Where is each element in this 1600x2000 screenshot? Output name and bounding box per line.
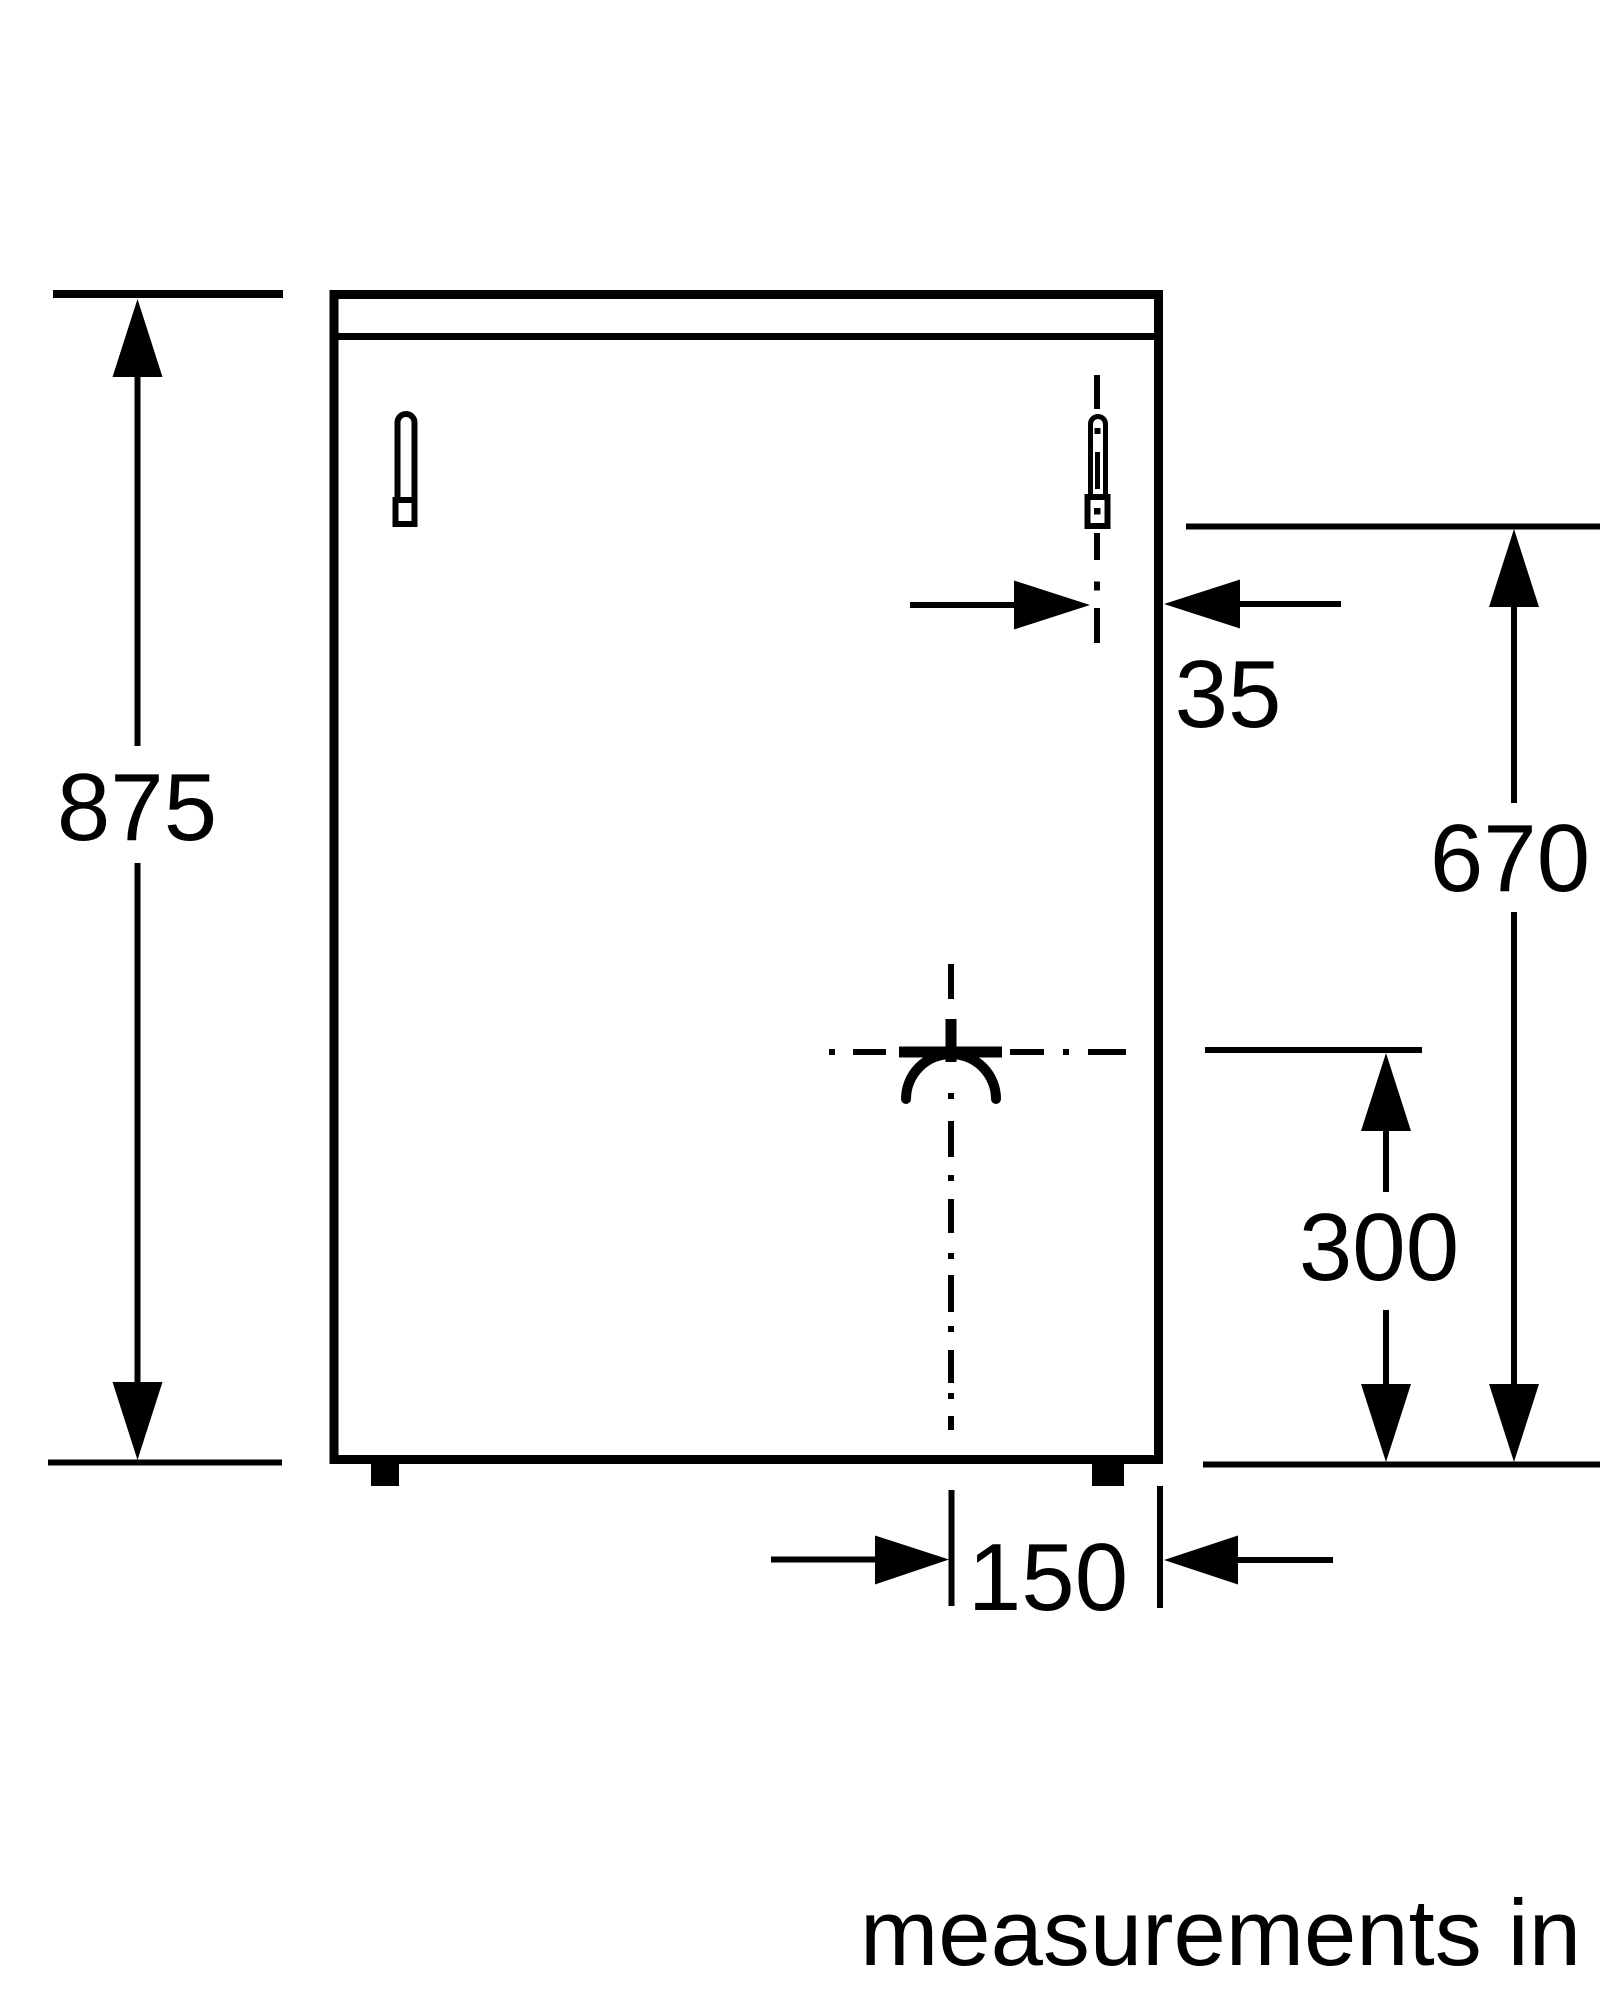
right connection stub base (square) [1088, 497, 1108, 526]
right foot [1092, 1464, 1124, 1486]
dim 35 right arrow tail [1238, 601, 1341, 607]
right stub dot in square [1094, 508, 1101, 515]
dim 670 top extension line [1186, 524, 1600, 530]
dim 300 arrowhead down [1361, 1384, 1411, 1462]
appliance back panel outline [334, 295, 1159, 1460]
gas symbol horizontal centerline (dash-dot) [829, 1049, 1126, 1055]
dim 35 left arrow tail [910, 602, 1016, 608]
right connection stub (slot) [1091, 417, 1106, 500]
gas symbol vertical centerline (dash-dot) [948, 964, 954, 1430]
dim 150 right extension tick [1157, 1486, 1163, 1608]
left foot [371, 1464, 399, 1486]
dim 875 arrowhead up [113, 299, 163, 377]
dim 875 line upper shaft [135, 372, 141, 746]
svg-text:150: 150 [968, 1524, 1128, 1631]
svg-text:measurements in mm: measurements in mm [860, 1880, 1600, 1985]
dim 300 arrowhead up [1361, 1053, 1411, 1131]
gas connection symbol dome arc [906, 1054, 996, 1099]
dim 300 top extension line [1205, 1047, 1422, 1053]
svg-text:300: 300 [1299, 1194, 1459, 1301]
left connection stub base (square) [396, 500, 415, 524]
dim 35 right arrowhead [1164, 580, 1240, 629]
right stub inner dash [1095, 452, 1100, 489]
dim 150 left arrowhead [875, 1536, 949, 1585]
svg-text:35: 35 [1175, 641, 1282, 748]
dim 670 lower shaft [1511, 912, 1517, 1389]
gas connection symbol cross horizontal bar [899, 1047, 1002, 1058]
dim 875 line lower shaft [135, 863, 141, 1387]
dim 150 right arrow tail [1236, 1557, 1333, 1563]
dim 150 left arrow tail [771, 1557, 877, 1563]
right stub centerline (dash-dot) [1094, 375, 1100, 643]
dim 875 bottom extension line [48, 1460, 282, 1466]
dim 300 lower shaft [1383, 1310, 1389, 1389]
top panel separation line [334, 333, 1158, 340]
dim 670 arrowhead up [1489, 529, 1539, 607]
dim 150 right arrowhead [1164, 1536, 1238, 1585]
dim 875 arrowhead down [113, 1382, 163, 1460]
svg-text:670: 670 [1430, 805, 1590, 912]
dim 35 left arrowhead [1014, 581, 1090, 630]
dim 875 top extension line [53, 290, 283, 298]
dim 670 upper shaft [1511, 602, 1517, 803]
right stub dot in slot [1095, 428, 1101, 434]
bottom right extension line (for 300 and 670) [1203, 1462, 1600, 1468]
svg-text:875: 875 [57, 754, 217, 861]
left connection stub (slot) [398, 414, 415, 500]
dim 150 left extension tick [949, 1490, 955, 1606]
gas connection symbol cross vertical bar [946, 1019, 957, 1062]
dim 300 upper shaft [1383, 1126, 1389, 1192]
dim 670 arrowhead down [1489, 1384, 1539, 1462]
